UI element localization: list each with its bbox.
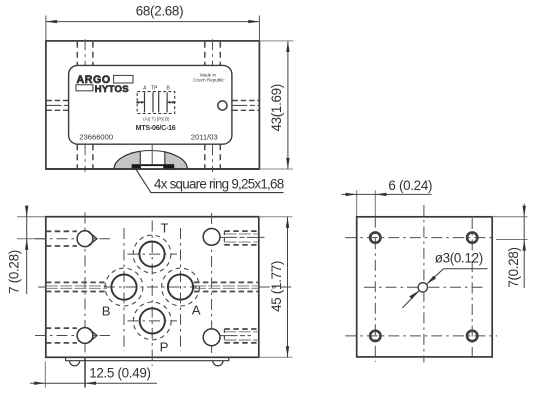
svg-text:4x square ring 9,25x1,68: 4x square ring 9,25x1,68: [154, 176, 284, 191]
svg-text:43(1.69): 43(1.69): [269, 84, 284, 131]
svg-text:T: T: [161, 221, 169, 236]
svg-text:23666000: 23666000: [79, 133, 113, 142]
svg-text:MTS-06/C-16: MTS-06/C-16: [136, 124, 176, 132]
svg-text:68(2.68): 68(2.68): [136, 4, 183, 19]
svg-text:(A)( T) (P)( B): (A)( T) (P)( B): [143, 116, 170, 121]
svg-text:6 (0.24): 6 (0.24): [388, 178, 432, 193]
svg-text:B: B: [102, 304, 111, 319]
svg-text:12.5 (0.49): 12.5 (0.49): [89, 365, 150, 380]
svg-text:TP: TP: [151, 85, 158, 91]
svg-text:7 (0.28): 7 (0.28): [6, 250, 21, 294]
svg-text:45 (1.77): 45 (1.77): [269, 261, 284, 312]
svg-text:7(0.28): 7(0.28): [506, 247, 521, 287]
svg-text:HYTOS: HYTOS: [95, 84, 130, 95]
svg-text:P: P: [160, 340, 169, 355]
svg-text:Czech Republic: Czech Republic: [193, 78, 225, 83]
svg-text:A: A: [192, 303, 201, 318]
svg-text:2011/03: 2011/03: [191, 133, 218, 142]
svg-text:ø3(0.12): ø3(0.12): [435, 251, 483, 266]
